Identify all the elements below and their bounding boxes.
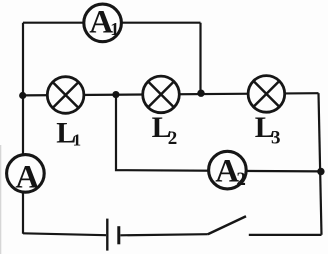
svg-text:1: 1 <box>73 131 82 150</box>
svg-text:2: 2 <box>236 169 246 190</box>
svg-text:3: 3 <box>271 128 281 149</box>
svg-text:2: 2 <box>168 128 178 149</box>
svg-text:1: 1 <box>110 19 119 39</box>
svg-text:A: A <box>15 159 39 195</box>
